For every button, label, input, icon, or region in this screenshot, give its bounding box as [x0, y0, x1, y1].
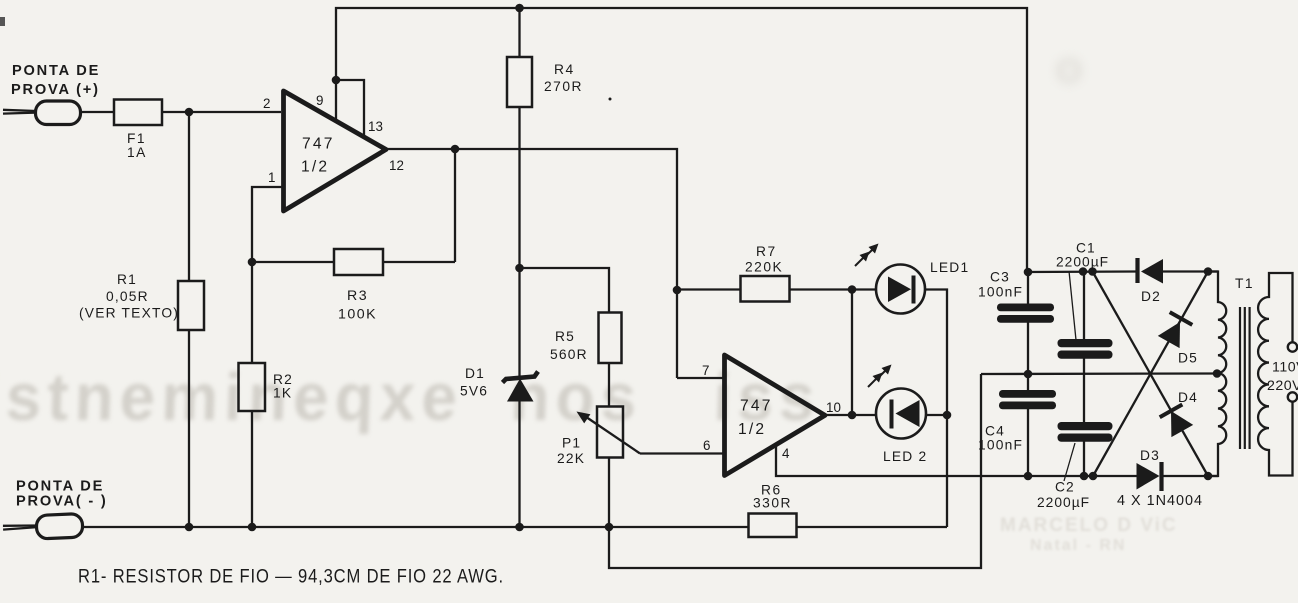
- svg-text:100K: 100K: [338, 307, 377, 323]
- svg-text:(VER TEXTO): (VER TEXTO): [79, 306, 179, 321]
- label D1 5V6: [460, 366, 488, 399]
- diode D3: [1137, 462, 1162, 491]
- svg-text:13: 13: [368, 119, 383, 134]
- svg-text:C2: C2: [1055, 480, 1075, 495]
- node junction P1/rail/0V jog: [605, 523, 614, 532]
- wire op1 output to op2 pin7: [386, 149, 677, 378]
- resistor R2: [239, 363, 266, 411]
- label R5 560R: [550, 329, 588, 362]
- transformer T1 secondary winding: [1208, 272, 1226, 477]
- probe tip PONTA DE PROVA (-): [3, 514, 83, 541]
- wire R3 line: [252, 149, 455, 262]
- LED2: [876, 389, 926, 439]
- svg-text:D2: D2: [1141, 289, 1161, 304]
- node junction bridge BR: [1204, 472, 1213, 481]
- label R1 0,05R (VER TEXTO): [79, 272, 179, 321]
- wire R5 branch: [520, 268, 610, 527]
- wire op2 pin 6 input: [640, 452, 724, 454]
- capacitor C2: [1058, 422, 1113, 442]
- node junction R7/LED anodes: [848, 285, 857, 294]
- wire 0V line to center tap: [981, 372, 1218, 375]
- wire D1 column: [518, 268, 520, 527]
- zener diode D1: [503, 372, 539, 402]
- label R2 1K: [273, 372, 293, 401]
- label R6 330R: [753, 483, 792, 511]
- wire pin9 to pin13 loop: [336, 80, 364, 137]
- label C3 100nF: [978, 270, 1023, 300]
- svg-text:R3: R3: [347, 288, 368, 304]
- svg-text:5V6: 5V6: [460, 384, 488, 399]
- diode D4: [1160, 405, 1194, 438]
- resistor R6: [749, 514, 797, 538]
- capacitor C1: [1058, 339, 1113, 359]
- svg-text:1/2: 1/2: [301, 159, 329, 176]
- wire probe to F1: [80, 111, 114, 113]
- svg-text:100nF: 100nF: [978, 285, 1023, 300]
- wire pin 1 to R2/R3 node: [252, 187, 283, 262]
- wire op2 pin 4 to -V rail: [776, 445, 1137, 476]
- wire + rail to bridge: [1027, 270, 1218, 273]
- svg-text:100nF: 100nF: [978, 438, 1023, 453]
- node junction C2/-V: [1080, 472, 1089, 481]
- speck: [0, 17, 5, 26]
- wire op2 pin 7 input: [677, 377, 725, 379]
- leader line C2: [1064, 443, 1075, 481]
- transformer T1 core: [1240, 307, 1250, 449]
- wire bridge diagonal TL-BR: [1093, 272, 1209, 477]
- svg-text:0,05R: 0,05R: [106, 289, 149, 304]
- node junction C4/-V: [1024, 472, 1033, 481]
- resistor R4: [507, 57, 532, 107]
- transformer T1 primary winding: [1258, 273, 1292, 476]
- capacitor C3: [997, 304, 1054, 323]
- label C4 100nF: [978, 424, 1023, 453]
- diode D5: [1158, 312, 1193, 348]
- svg-text:10: 10: [826, 400, 841, 415]
- svg-text:LED1: LED1: [930, 260, 969, 275]
- svg-text:PROVA( - ): PROVA( - ): [16, 494, 108, 510]
- leader line C1: [1069, 271, 1076, 340]
- svg-text:R4: R4: [554, 62, 575, 77]
- wire top V+ rail: [336, 8, 1027, 272]
- svg-text:12: 12: [389, 158, 404, 173]
- potentiometer P1: [597, 407, 623, 458]
- op-amp U2 747 1/2: [725, 355, 826, 476]
- node junction diagonal/-V: [1089, 472, 1098, 481]
- svg-text:C1: C1: [1076, 241, 1096, 256]
- diode D2: [1138, 258, 1164, 284]
- wire C1 C2 column: [1083, 272, 1085, 477]
- svg-text:LED 2: LED 2: [883, 449, 927, 464]
- node junction R2/rail: [248, 523, 257, 532]
- wire bridge diagonal BL-TR: [1093, 272, 1208, 477]
- svg-text:2200µF: 2200µF: [1056, 255, 1109, 270]
- node junction output/R3: [451, 145, 460, 154]
- wire bottom probe rail: [82, 526, 947, 528]
- label U2 747 1/2: [738, 398, 773, 439]
- probe tip PONTA DE PROVA (+): [3, 101, 81, 125]
- label U1 747 1/2: [301, 136, 335, 176]
- node junction C3-C4/0V: [1024, 370, 1033, 379]
- svg-text:PONTA DE: PONTA DE: [16, 479, 104, 495]
- capacitor C4: [999, 390, 1056, 409]
- wire LED2 cathode: [926, 414, 947, 416]
- svg-text:R7: R7: [756, 244, 777, 259]
- svg-text:330R: 330R: [753, 496, 792, 511]
- svg-text:D3: D3: [1140, 448, 1160, 463]
- label PONTA DE PROVA (+): [11, 63, 100, 98]
- node junction pin9 feedback: [332, 76, 341, 85]
- svg-text:R5: R5: [555, 329, 575, 344]
- svg-text:1: 1: [268, 170, 275, 185]
- node center tap: [1213, 369, 1222, 378]
- label R4 270R: [544, 62, 583, 94]
- resistor R1: [178, 281, 204, 330]
- fuse F1: [114, 100, 162, 126]
- svg-text:C3: C3: [990, 270, 1010, 285]
- svg-text:PROVA (+): PROVA (+): [11, 82, 100, 98]
- svg-text:C4: C4: [985, 424, 1005, 439]
- svg-text:560R: 560R: [550, 347, 588, 362]
- wire R7 line: [677, 288, 876, 290]
- label C2 2200uF: [1037, 480, 1090, 511]
- svg-text:1A: 1A: [127, 145, 147, 160]
- label F1 1A: [127, 131, 147, 160]
- wire R1 column: [188, 112, 190, 527]
- speck: [609, 98, 612, 101]
- svg-text:270R: 270R: [544, 79, 583, 94]
- label P1 22K: [557, 436, 585, 467]
- svg-text:1K: 1K: [273, 386, 292, 401]
- svg-text:220K: 220K: [745, 260, 783, 275]
- node junction diagonal/+rail: [1088, 267, 1097, 276]
- node junction D1/rail: [515, 523, 524, 532]
- node junction bridge TR: [1204, 267, 1213, 276]
- wire -V rail right of D3: [1163, 475, 1218, 477]
- terminal 220V: [1288, 392, 1297, 401]
- resistor R7: [741, 276, 790, 302]
- resistor R5: [599, 313, 622, 364]
- wire LED1 cathode down: [925, 290, 947, 528]
- svg-text:4 X 1N4004: 4 X 1N4004: [1117, 493, 1203, 509]
- svg-text:7: 7: [702, 363, 709, 378]
- terminal 110V: [1288, 342, 1297, 351]
- node junction +rail/C3: [1024, 268, 1033, 277]
- svg-text:2: 2: [263, 96, 270, 111]
- wire R4 column: [518, 8, 520, 268]
- node junction R3/R2/pin1: [248, 258, 257, 267]
- op-amp U1 747 1/2: [284, 91, 387, 211]
- wiper arrow P1: [577, 412, 641, 454]
- svg-text:PONTA DE: PONTA DE: [12, 63, 100, 79]
- wire 0V jog to supply common: [609, 374, 981, 568]
- svg-text:4: 4: [782, 446, 790, 461]
- svg-text:D5: D5: [1178, 351, 1198, 366]
- svg-text:D4: D4: [1178, 390, 1198, 405]
- node junction R4/D1/R5: [515, 264, 524, 273]
- wire C3 C4 column: [1027, 272, 1029, 476]
- svg-text:D1: D1: [465, 366, 485, 381]
- label R3 100K: [338, 288, 377, 323]
- svg-text:110V: 110V: [1272, 360, 1298, 376]
- svg-text:R1- RESISTOR DE FIO — 94,3CM D: R1- RESISTOR DE FIO — 94,3CM DE FIO 22 A…: [78, 566, 504, 588]
- label PONTA DE PROVA (-): [16, 479, 108, 510]
- node junction C1/+rail: [1079, 267, 1088, 276]
- LED1 emission arrows: [855, 244, 879, 267]
- node junction F1/R1: [185, 108, 194, 117]
- svg-text:6: 6: [703, 438, 710, 453]
- wire op2 output: [825, 414, 876, 416]
- wire LED anode tie: [851, 290, 853, 416]
- wire F1 to op-amp pin 2: [162, 111, 281, 113]
- svg-text:9: 9: [316, 93, 323, 108]
- svg-text:F1: F1: [127, 131, 146, 146]
- svg-text:747: 747: [302, 136, 335, 153]
- node junction op2 output/LED2: [848, 411, 857, 420]
- LED1: [876, 265, 925, 314]
- node junction R1/rail: [185, 523, 194, 532]
- node junction LED2/cathode rail: [943, 411, 952, 420]
- svg-text:1/2: 1/2: [738, 421, 766, 438]
- svg-text:T1: T1: [1235, 276, 1254, 291]
- node junction pin7/R7: [673, 286, 682, 295]
- label R7 220K: [745, 244, 783, 275]
- wire R2 column: [251, 262, 253, 527]
- svg-text:747: 747: [740, 398, 773, 415]
- label C1 2200uF: [1056, 241, 1109, 270]
- svg-text:P1: P1: [562, 436, 581, 451]
- resistor R3: [334, 249, 383, 275]
- node junction R4/V+ rail: [515, 4, 524, 13]
- LED2 emission arrows: [868, 365, 892, 388]
- svg-text:220V: 220V: [1267, 378, 1298, 394]
- svg-text:2200µF: 2200µF: [1037, 495, 1090, 510]
- svg-text:R1: R1: [117, 272, 137, 287]
- svg-text:22K: 22K: [557, 451, 585, 466]
